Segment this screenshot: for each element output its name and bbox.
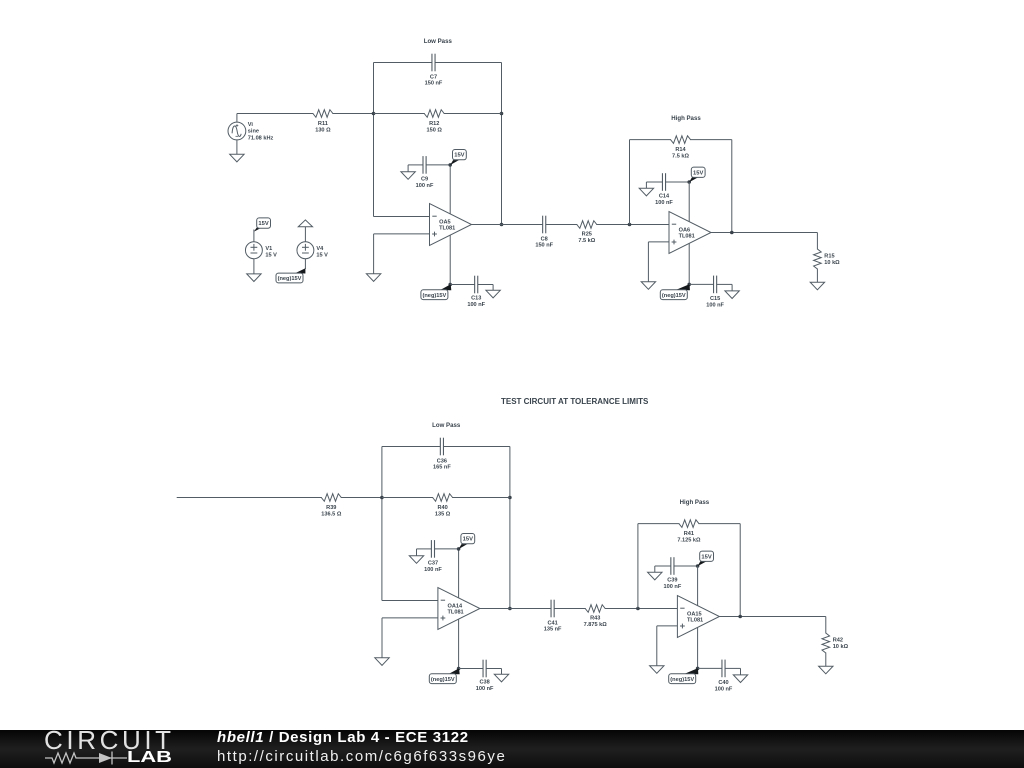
wire op-amp V+ supply [688,182,690,223]
svg-text:R25: R25 [582,232,592,238]
svg-text:15V: 15V [701,554,711,560]
CircuitLab logo resistor-diode glyph [40,750,140,766]
svg-text:15V: 15V [258,221,268,227]
footer url [217,749,506,765]
svg-text:130 Ω: 130 Ω [315,127,331,133]
svg-text:7.5 kΩ: 7.5 kΩ [578,238,595,244]
net label (neg)15V (V4) [304,259,306,269]
wire feedback left rail [629,140,631,225]
svg-text:C41: C41 [547,620,557,626]
svg-text:(neg)15V: (neg)15V [662,293,686,299]
svg-text:10 kΩ: 10 kΩ [824,260,840,266]
svg-text:100 nF: 100 nF [664,584,682,590]
svg-text:7.5 kΩ: 7.5 kΩ [672,153,689,159]
svg-text:100 nF: 100 nF [706,303,724,309]
svg-text:sine: sine [248,129,259,135]
resistor R15 10 kΩ (load) [816,233,818,250]
svg-text:TL081: TL081 [448,610,464,616]
net label 15V flag [698,561,707,566]
wire Vi to R11 [236,114,238,123]
ground (load) [819,666,833,674]
svg-text:C40: C40 [718,680,728,686]
svg-text:R40: R40 [437,505,447,511]
op-amp OA5 TL081 [430,204,472,246]
wire R39 to low pass [341,497,382,499]
resistor R11 130 Ω [313,110,333,118]
junction high pass left rail [636,607,640,611]
wire op-amp output [711,232,817,234]
svg-text:10 kΩ: 10 kΩ [833,644,849,650]
resistor R39 136.5 Ω [321,494,341,502]
svg-text:C9: C9 [421,177,428,183]
svg-text:TL081: TL081 [439,226,455,232]
net label 15V flag [689,177,698,182]
svg-text:(neg)15V: (neg)15V [422,293,446,299]
svg-text:C8: C8 [541,236,548,242]
wire left rail to inverting input [381,447,383,601]
wire non-inverting input [374,233,430,235]
wire feedback right rail [731,140,733,233]
CircuitLab logo text CIRCUIT [44,728,175,753]
svg-text:TL081: TL081 [679,234,695,240]
svg-text:100 nF: 100 nF [655,200,673,206]
junction high pass left rail [628,223,632,227]
svg-text:15V: 15V [454,153,464,159]
capacitor C7 150 nF [431,54,433,72]
wire right rail [509,447,511,609]
svg-text:R42: R42 [833,638,843,644]
svg-text:100 nF: 100 nF [424,567,442,573]
capacitor C38 100 nF (V- bypass) [459,668,483,670]
wire non-inverting input [382,617,438,619]
svg-text:100 nF: 100 nF [715,687,733,693]
ground (non-inverting input) [375,658,389,666]
svg-text:C14: C14 [659,194,670,200]
voltage source V1 15 V [253,230,255,242]
junction node right rail output [508,607,512,611]
ground (non-inverting input) [366,274,380,282]
ground (load) [810,282,824,290]
junction V- node [696,667,700,671]
wire op-amp V+ supply [458,549,460,599]
wire input (test circuit) [177,497,322,499]
svg-text:15 V: 15 V [265,253,277,259]
junction node left rail [380,496,384,500]
wire coupling cap to resistor [546,224,578,226]
wire R11 to low pass [332,113,373,115]
svg-text:150 nF: 150 nF [535,243,553,249]
footer bar [0,730,1024,768]
svg-text:7.875 kΩ: 7.875 kΩ [584,622,608,628]
net label 15V (V1) [254,227,262,232]
junction node right rail output [500,223,504,227]
wire mid row [374,113,425,115]
svg-text:C13: C13 [471,296,481,302]
wire top feedback rail [382,446,440,448]
svg-text:R41: R41 [684,531,694,537]
net label (neg)15V flag [448,668,459,674]
op-amp OA14 TL081 [438,588,480,630]
wire op-amp V+ supply [697,566,699,607]
capacitor C36 165 nF [439,438,441,456]
svg-text:TL081: TL081 [687,618,703,624]
CircuitLab logo text LAB [127,751,172,764]
svg-text:TEST CIRCUIT AT TOLERANCE LIMI: TEST CIRCUIT AT TOLERANCE LIMITS [501,397,649,406]
svg-text:7.125 kΩ: 7.125 kΩ [677,537,701,543]
svg-text:R11: R11 [318,121,328,127]
junction V+ node [696,564,700,568]
svg-text:OA5: OA5 [439,219,451,225]
op-amp OA15 TL081 [677,596,719,638]
ground (bypass cap) [416,549,418,556]
resistor R14 7.5 kΩ (feedback) [671,136,691,144]
svg-text:150 nF: 150 nF [425,81,443,87]
capacitor C39 100 nF (V+ bypass) [655,565,671,567]
capacitor C41 135 nF (coupling) [550,600,552,618]
junction output right rail [738,615,742,619]
svg-text:R43: R43 [590,616,600,622]
resistor R12 150 Ω [424,110,444,118]
ground (V+ bypass) [654,566,656,572]
svg-text:165 nF: 165 nF [433,465,451,471]
capacitor C9 100 nF (V+ bypass) [408,164,423,166]
capacitor C40 100 nF (V- bypass) [698,667,722,669]
ground (non-inverting input) [650,666,664,674]
wire top feedback rail [374,62,432,64]
net label (neg)15V flag [676,284,690,290]
wire feedback left rail [637,524,639,609]
svg-text:15V: 15V [693,170,703,176]
svg-text:135 Ω: 135 Ω [435,511,451,517]
svg-text:V1: V1 [265,246,272,252]
svg-text:R14: R14 [675,147,686,153]
svg-text:136.5 Ω: 136.5 Ω [321,511,342,517]
capacitor C37 100 nF (V+ bypass) [417,548,432,550]
capacitor C8 150 nF (coupling) [542,216,544,234]
ground (V- bypass) [740,668,742,675]
wire right rail [501,63,503,225]
net label (neg)15V flag [684,668,698,674]
svg-text:OA15: OA15 [687,611,702,617]
resistor R40 135 Ω [433,494,453,502]
wire op-amp V- supply [688,243,690,284]
svg-text:R15: R15 [824,254,834,260]
wire non-inverting input [657,625,678,627]
net label 15V flag [450,160,459,165]
wire feedback top row [638,523,680,525]
resistor R42 10 kΩ (load) [825,617,827,634]
svg-text:135 nF: 135 nF [544,627,562,633]
svg-text:(neg)15V: (neg)15V [431,677,455,683]
junction V- node [687,283,691,287]
net label 15V flag [459,544,468,549]
ground (V- bypass) [731,284,733,291]
junction node left rail [372,112,376,116]
svg-text:Low Pass: Low Pass [424,38,453,45]
svg-text:71.08 kHz: 71.08 kHz [248,136,274,142]
wire op-amp V- supply [449,235,451,285]
voltage source Vi sine 71.08 kHz [228,122,246,140]
svg-text:100 nF: 100 nF [476,686,494,692]
terminal arrow (V4 positive) [298,220,312,227]
svg-text:C38: C38 [479,680,489,686]
wire non-inverting input [648,241,669,243]
wire op-amp V- supply [458,619,460,669]
wire to high pass stage [596,224,669,226]
junction node right rail top [500,112,504,116]
svg-text:15 V: 15 V [316,253,328,259]
svg-text:R12: R12 [429,121,439,127]
junction output right rail [730,231,734,235]
op-amp OA6 TL081 [669,212,711,254]
svg-text:(neg)15V: (neg)15V [278,276,302,282]
junction V- node [457,667,461,671]
svg-text:150 Ω: 150 Ω [427,127,443,133]
svg-text:C15: C15 [710,296,720,302]
wire feedback right rail [739,524,741,617]
svg-text:100 nF: 100 nF [467,302,485,308]
svg-text:High Pass: High Pass [671,115,701,122]
svg-text:OA14: OA14 [448,603,464,609]
wire op-amp output [719,616,825,618]
svg-text:High Pass: High Pass [680,499,710,506]
wire op-amp output [472,224,543,226]
junction V+ node [457,547,461,551]
svg-text:C37: C37 [428,561,438,567]
voltage source V4 15 V [304,227,306,242]
resistor R41 7.125 kΩ (feedback) [679,520,699,528]
resistor R25 7.5 kΩ [577,221,597,229]
svg-text:15V: 15V [463,537,473,543]
junction V- node [448,283,452,287]
wire op-amp V- supply [697,627,699,668]
ground (bypass cap) [407,165,409,172]
svg-text:Low Pass: Low Pass [432,422,461,429]
svg-text:Vi: Vi [248,122,254,128]
svg-text:V4: V4 [316,246,324,252]
junction V+ node [448,163,452,167]
svg-text:(neg)15V: (neg)15V [670,677,694,683]
svg-text:C7: C7 [430,74,437,80]
ground (V- bypass cap) [501,669,503,675]
wire to high pass stage [605,608,678,610]
wire op-amp output [480,608,551,610]
svg-text:R39: R39 [326,505,336,511]
ground (V+ bypass) [645,182,647,188]
ground (V- bypass cap) [492,285,494,291]
wire mid row [382,497,433,499]
junction V+ node [687,180,691,184]
svg-text:C39: C39 [667,578,677,584]
wire op-amp V+ supply [449,165,451,215]
junction node right rail top [508,496,512,500]
ground (non-inverting input) [641,282,655,290]
capacitor C15 100 nF (V- bypass) [689,283,713,285]
svg-text:100 nF: 100 nF [416,183,434,189]
net label (neg)15V flag [440,284,451,290]
capacitor C14 100 nF (V+ bypass) [646,181,662,183]
svg-text:OA6: OA6 [679,227,691,233]
ground (Vi) [236,140,238,154]
ground (V1) [253,259,255,274]
wire coupling cap to resistor [554,608,586,610]
wire feedback top row [630,139,672,141]
footer title hbell1 / Design Lab 4 - ECE 3122 [217,730,469,746]
resistor R43 7.875 kΩ [585,605,605,613]
capacitor C13 100 nF (V- bypass) [450,284,474,286]
wire left rail to inverting input [373,63,375,217]
svg-text:C36: C36 [437,458,447,464]
